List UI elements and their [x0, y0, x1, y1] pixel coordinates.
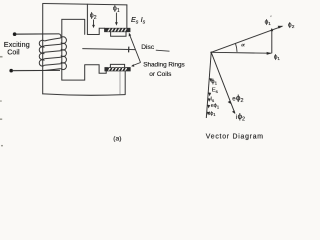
svg-text:eϕ2: eϕ2 — [232, 93, 243, 104]
svg-text:(a): (a) — [113, 135, 121, 142]
vector phi1 (horizontal) — [211, 52, 280, 61]
core window opening — [62, 19, 85, 80]
vector origin vertex — [210, 52, 212, 54]
svg-text:ϕ1: ϕ1 — [211, 79, 217, 85]
svg-text:Es: Es — [212, 88, 219, 94]
svg-text:Coil: Coil — [7, 47, 20, 56]
scan specks left margin — [0, 56, 3, 146]
svg-text:EsIs: EsIs — [131, 15, 146, 26]
flux arrow phi1 — [113, 6, 120, 26]
lower limb left edge — [119, 71, 121, 94]
exciting coil turns — [39, 34, 66, 71]
core outer frame right edge lower — [124, 71, 126, 95]
upper pole inner edge and slot — [87, 4, 104, 34]
svg-text:ϕ1: ϕ1 — [274, 54, 281, 61]
disc edge tick — [128, 47, 130, 53]
svg-text:Vector Diagram: Vector Diagram — [206, 133, 264, 140]
upper shaded pole piece — [111, 32, 126, 37]
svg-text:ϕ2: ϕ2 — [288, 22, 295, 30]
svg-text:ϕ1′: ϕ1′ — [265, 16, 272, 26]
core outer frame top edge — [43, 3, 127, 4]
vector e-phi2 / i-phi2 (down-right slant) — [211, 52, 235, 114]
angle alpha arc — [236, 42, 246, 52]
svg-text:Disc: Disc — [141, 44, 155, 51]
shading ring upper (hatched bar) — [104, 28, 130, 32]
svg-text:iϕ2: iϕ2 — [236, 112, 245, 123]
svg-text:∝: ∝ — [240, 42, 245, 49]
disc line left segment — [82, 49, 135, 50]
core outer frame right edge upper — [126, 5, 128, 28]
svg-text:or Coils: or Coils — [149, 71, 172, 78]
core outer frame bottom edge — [43, 94, 125, 95]
vector bundle down-left (phi1, Es, Is, e-phi1, i-phi1) — [206, 52, 212, 118]
coil lead top — [13, 32, 59, 36]
svg-text:Is: Is — [210, 97, 215, 103]
disc line right segment — [156, 50, 170, 51]
coil lead bottom — [9, 69, 60, 73]
svg-text:Shading Rings: Shading Rings — [143, 61, 185, 68]
lower shaded pole piece — [110, 64, 124, 67]
leader arrow to lower shading ring — [131, 62, 140, 66]
svg-text:iϕ1: iϕ1 — [209, 111, 216, 117]
vector phi2 (up-right) — [211, 22, 295, 53]
leader arrow to upper shading ring — [129, 33, 141, 63]
lower pole face and slot — [85, 65, 106, 74]
vector phi1-prime (riser) — [265, 16, 274, 54]
svg-text:eϕ1: eϕ1 — [211, 103, 220, 109]
flux arrow phi2 — [90, 12, 97, 28]
core outer frame left edge — [42, 3, 44, 93]
shading ring lower (hatched bar) — [105, 67, 131, 71]
